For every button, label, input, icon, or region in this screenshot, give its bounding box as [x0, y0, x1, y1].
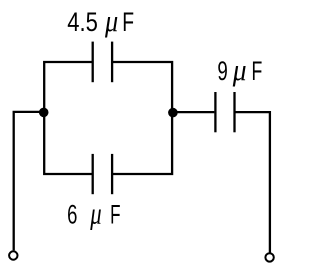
capacitor C1 plate right (4.5 uF) [111, 42, 113, 83]
terminal circle left [9, 251, 17, 259]
capacitor C1 plate left (4.5 uF) [92, 42, 94, 83]
wire: top-right half of parallel loop [112, 62, 172, 174]
capacitor C2 plate right (6 uF) [111, 154, 113, 194]
capacitor C2 plate left (6 uF) [92, 154, 94, 194]
junction node right [168, 108, 178, 118]
svg-text:F: F [122, 7, 134, 37]
svg-text:6: 6 [67, 200, 77, 230]
junction node left [39, 108, 49, 118]
svg-text:μ: μ [90, 196, 102, 231]
svg-text:μ: μ [232, 52, 247, 87]
wire: right node to C3 left plate [172, 111, 214, 113]
svg-text:μ: μ [104, 3, 118, 38]
svg-text:F: F [110, 200, 120, 230]
capacitor C3 plate left (9 uF) [214, 92, 216, 132]
wire: top-left half of parallel loop [44, 62, 92, 174]
wire: left node to left terminal lead [14, 112, 44, 251]
terminal circle right [265, 253, 273, 261]
svg-text:9: 9 [217, 56, 227, 86]
svg-text:F: F [252, 56, 263, 86]
svg-text:4.5: 4.5 [67, 7, 98, 37]
capacitor C3 plate right (9 uF) [233, 92, 235, 132]
wire: C3 right plate to right terminal lead [235, 112, 270, 252]
